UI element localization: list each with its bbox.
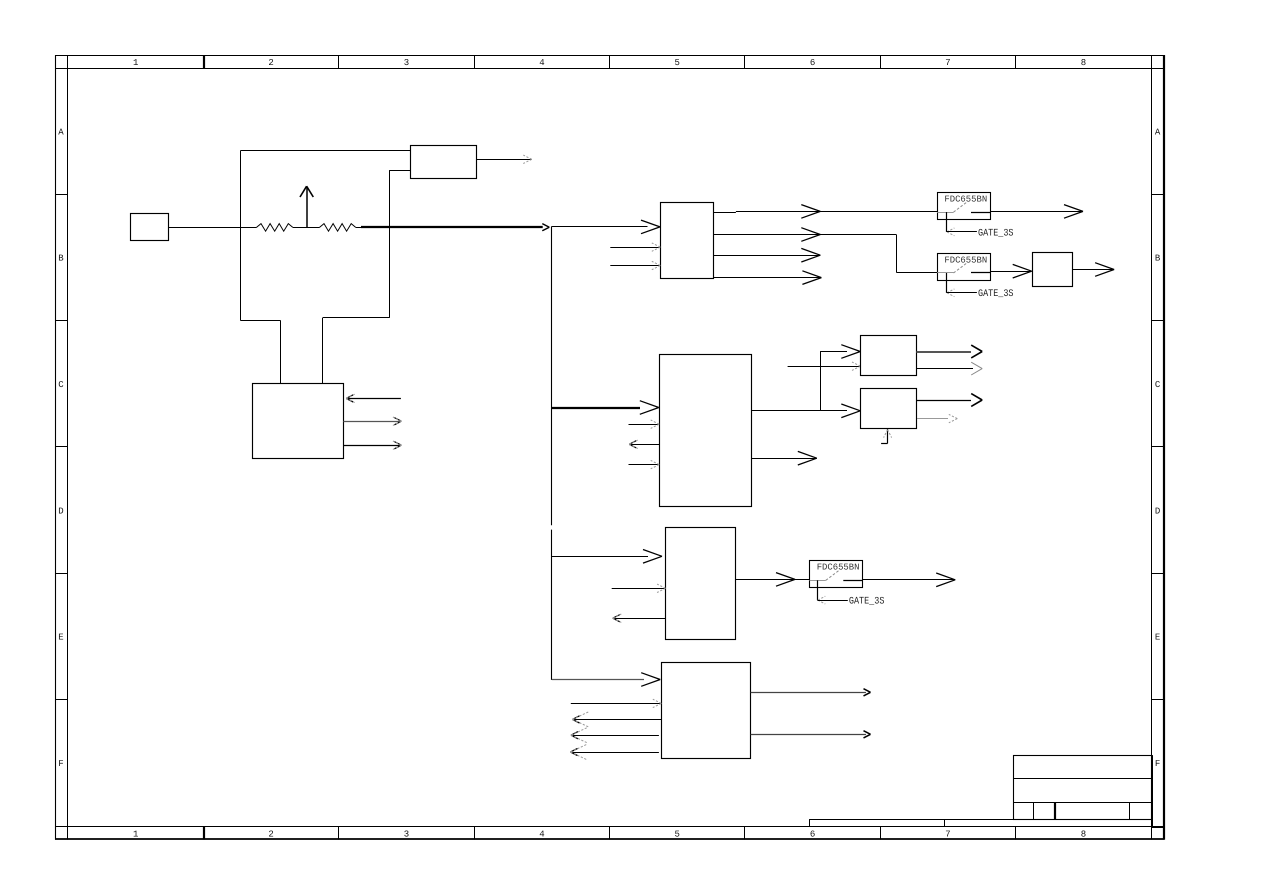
wire: bus to U4 (gray) [552, 673, 660, 687]
wire: vertical bus [551, 227, 553, 680]
wire: R1-R2 tap node [293, 227, 320, 229]
wire: U5 output arrow [477, 155, 532, 163]
svg-text:B: B [1155, 254, 1161, 264]
label: Q3 GATE_3S [817, 580, 884, 607]
wire: U1 out3 [713, 248, 820, 262]
wire: box B out2 (gray) [917, 414, 957, 422]
wire: U6 output 2 [343, 441, 401, 449]
svg-text:6: 6 [810, 58, 815, 68]
wire: Q1 output arrow [990, 205, 1083, 219]
block: load box (right of Q2) [1033, 253, 1073, 287]
wire: U3 input b [612, 584, 666, 592]
wire: U2 input b [629, 460, 660, 468]
wire: U4 out2 (gray) [751, 731, 871, 738]
wire: U2 out to boxes A/B [752, 345, 861, 418]
svg-text:6: 6 [810, 829, 815, 839]
svg-text:4: 4 [539, 829, 544, 839]
wire: box A out2 [916, 362, 982, 375]
wire: U3 output left [613, 614, 666, 622]
block: switch ctrl U1 [661, 203, 714, 279]
svg-text:8: 8 [1081, 58, 1086, 68]
wire: Q3 output arrow [862, 573, 955, 587]
wire: U4 io c (left arrow) [571, 727, 659, 743]
svg-text:5: 5 [674, 829, 679, 839]
block: box A [861, 336, 917, 376]
wire: U3 to Q3 [736, 573, 810, 587]
wire: load box output arrow [1073, 263, 1114, 277]
wire: U1 input a [610, 243, 660, 251]
svg-text:2: 2 [268, 58, 273, 68]
wire: U4 io b (left arrow) [573, 711, 662, 727]
svg-text:2: 2 [268, 829, 273, 839]
wire: feedback branch left [240, 151, 410, 384]
svg-text:A: A [58, 127, 64, 137]
block: monitor U4 [662, 663, 751, 759]
svg-text:3: 3 [404, 58, 409, 68]
svg-text:E: E [1155, 633, 1160, 643]
wire: U4 io d (left arrow) [571, 744, 659, 760]
arrow: tap sense (up) [300, 186, 313, 227]
wire: box B bottom stub [881, 429, 892, 444]
wire: box B out1 [916, 394, 982, 407]
wire: bus to U3 [551, 550, 662, 564]
svg-text:8: 8 [1081, 829, 1086, 839]
wire: U1 out1 to Q1 [713, 205, 937, 219]
wire: U2 input a [629, 420, 660, 428]
wire: U4 input a [571, 699, 662, 707]
wire: J1 to R1 [169, 227, 257, 229]
wire: U6 output gray [343, 417, 401, 425]
transistor Q3 FDC655BN [810, 561, 863, 588]
wire: U4 out1 (gray) [751, 689, 871, 696]
svg-text:1: 1 [133, 58, 138, 68]
wire: box A input b [788, 362, 861, 370]
label: Q2 GATE_3S [947, 273, 1014, 300]
wire: bus to U2 (thick) [551, 401, 658, 415]
svg-text:C: C [1155, 380, 1161, 390]
wire: feedback branch right [323, 171, 411, 384]
resistor R1 [257, 224, 293, 232]
svg-text:C: C [58, 380, 64, 390]
title block [809, 755, 1164, 827]
wire: U1 out4 [713, 271, 821, 285]
svg-text:GATE_3S: GATE_3S [849, 597, 885, 608]
block: power mux U2 [660, 355, 752, 507]
transistor Q2 FDC655BN [937, 254, 990, 281]
wire: U1 out2 to Q2 [713, 228, 937, 273]
svg-text:1: 1 [133, 829, 138, 839]
svg-text:4: 4 [539, 58, 544, 68]
wire: box A out1 (gray) [916, 345, 982, 358]
label: Q1 GATE_3S [947, 212, 1014, 239]
transistor Q1 FDC655BN [937, 193, 990, 220]
block: supervisor U6 (left) [253, 384, 344, 459]
svg-text:B: B [58, 254, 64, 264]
svg-text:GATE_3S: GATE_3S [978, 289, 1014, 300]
resistor R2 [320, 224, 356, 232]
svg-text:3: 3 [404, 829, 409, 839]
svg-text:F: F [58, 759, 63, 769]
wire: U1 input b [610, 261, 660, 269]
block: charger U3 [666, 528, 736, 640]
svg-text:F: F [1155, 759, 1160, 769]
wire: bus to U1 + arrow [551, 220, 660, 234]
svg-text:7: 7 [945, 829, 950, 839]
svg-text:E: E [58, 633, 63, 643]
block: regulator U5 (top) [411, 146, 477, 179]
svg-text:A: A [1155, 127, 1161, 137]
svg-text:5: 5 [674, 58, 679, 68]
wire: main rail (thick) [356, 224, 550, 231]
wire: U2 out2 arrow [752, 451, 817, 465]
svg-text:GATE_3S: GATE_3S [978, 228, 1014, 239]
svg-text:7: 7 [945, 58, 950, 68]
input box J1 [131, 214, 169, 241]
svg-text:D: D [1155, 506, 1160, 516]
wire: U2 output left [629, 440, 659, 448]
block: box B [861, 389, 917, 429]
wire: U6 input (left arrow) [346, 394, 401, 402]
svg-text:D: D [58, 506, 63, 516]
wire: Q2 to load box [990, 264, 1031, 278]
